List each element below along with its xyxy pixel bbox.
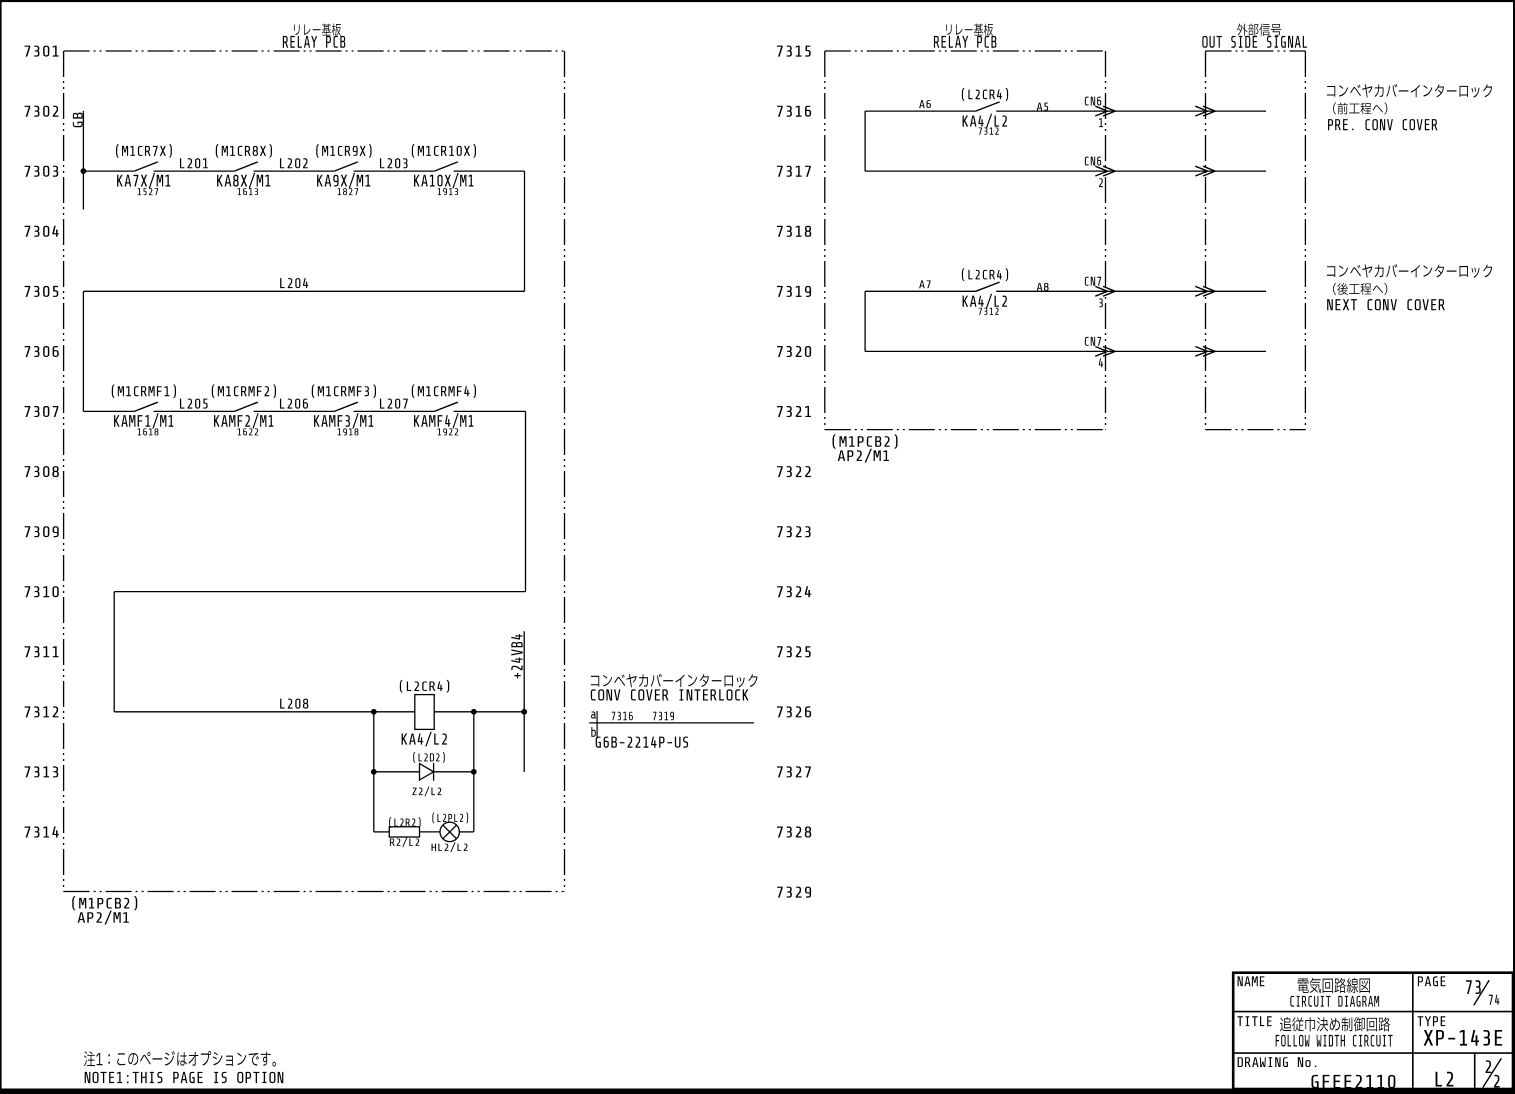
wire 7307 to 7310 [525, 411, 527, 591]
wire 7316 to 7317 [864, 111, 866, 171]
junction diode branch left [371, 769, 377, 775]
connector CN7 pin 3 [1085, 277, 1266, 307]
contact M1CRMF1 KAMF1/M1 [112, 384, 176, 435]
enclosure OUT SIDE SIGNAL [1202, 23, 1307, 429]
junction diode branch right [471, 769, 477, 775]
net L201 [180, 158, 208, 168]
relay coil L2CR4 KA4/L2 [400, 680, 449, 747]
contact M1CR9X KA9X/M1 [316, 144, 371, 195]
wire rung 7303 [83, 170, 524, 172]
net L204 [83, 278, 524, 291]
label PRE. CONV COVER [1327, 84, 1492, 130]
wire branch left (coil parallel) [373, 712, 375, 832]
contact M1CR8X KA8X/M1 [216, 144, 272, 195]
contact M1CR7X KA7X/M1 [116, 144, 172, 195]
net L206 [280, 399, 308, 409]
wire 7303 to L204 [524, 171, 526, 291]
junction L208 / +24VB4 [521, 709, 527, 715]
label relay contact table a/b 7316 7319 [589, 711, 754, 739]
wire L204 to 7307 [82, 291, 84, 411]
power rail +24VB4 [511, 631, 524, 772]
note: this page is option [84, 1051, 283, 1083]
net L202 [280, 158, 308, 168]
wire rung 7307 [83, 410, 525, 412]
label CONV COVER INTERLOCK annotation [591, 674, 758, 701]
net L207 [380, 399, 408, 409]
wire coil to +24VB4 [434, 711, 524, 713]
diode L2D2 Z2/L2 [374, 752, 474, 796]
label (M1PCB2) AP2/M1 right [833, 434, 898, 462]
contact M1CRMF4 KAMF4/M1 [412, 384, 476, 435]
label (M1PCB2) AP2/M1 left [72, 896, 137, 924]
label part number G6B-2214P-US [596, 737, 688, 748]
wire 7319 to 7320 [864, 291, 866, 351]
net L203 [380, 158, 408, 168]
connector CN7 pin 4 [1085, 337, 1266, 367]
enclosure RELAY PCB (left relay board) [64, 24, 565, 892]
junction GB / line 7303 [81, 168, 87, 174]
junction L208 / branch left [371, 709, 377, 715]
wire rung at CN7 pin 4 [865, 350, 1105, 352]
line numbers 7301-7314 [25, 46, 59, 838]
wire branch right (coil parallel) [473, 712, 475, 832]
enclosure RELAY PCB (right relay board) [825, 24, 1106, 430]
contact M1CR10X KA10X/M1 [412, 144, 476, 195]
resistor L2R2 R2/L2 [374, 817, 421, 847]
label NEXT CONV COVER [1327, 264, 1492, 310]
net L205 [180, 399, 208, 409]
wire rung 7310 [114, 591, 525, 593]
contact L2CR4 KA4/L2 pins A7-A8 [865, 268, 1105, 315]
connector CN6 pin 1 [1085, 97, 1266, 127]
line numbers 7315-7329 [777, 46, 811, 898]
junction L208 / branch right [471, 709, 477, 715]
wire 7310 to L208 [113, 592, 115, 712]
contact M1CRMF2 KAMF2/M1 [212, 384, 276, 435]
connector CN6 pin 2 [1085, 157, 1266, 187]
lamp L2PL2 HL2/L2 [420, 813, 474, 853]
contact L2CR4 KA4/L2 pins A6-A5 [865, 88, 1105, 135]
wire rung at CN6 pin 2 [865, 170, 1105, 172]
title block [1233, 973, 1513, 1089]
contact M1CRMF3 KAMF3/M1 [312, 384, 376, 435]
net L208 [114, 699, 415, 712]
power rail GB [73, 111, 84, 210]
